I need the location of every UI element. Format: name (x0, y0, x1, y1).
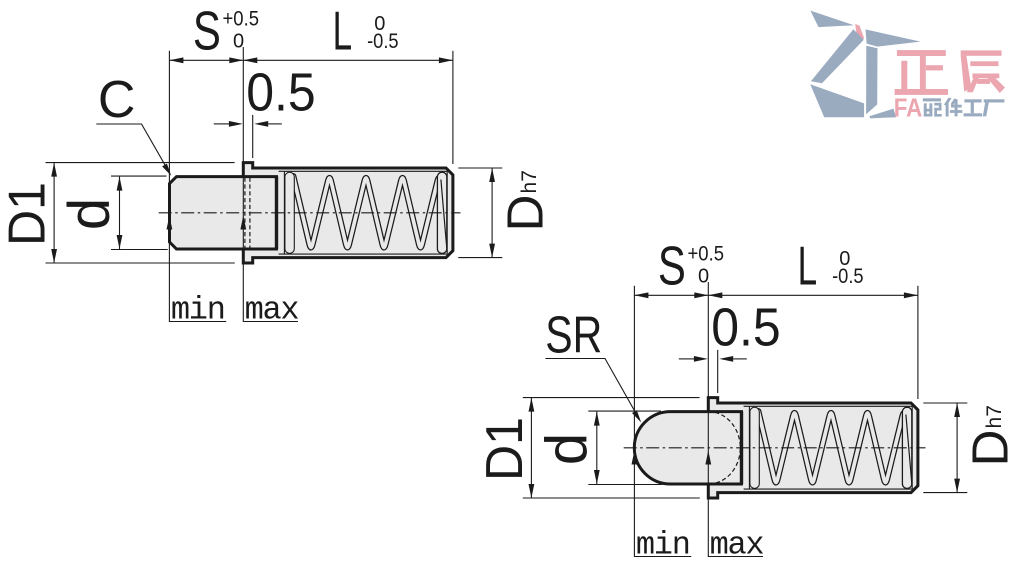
plunger nose A (flat tip with chamfer C) (170, 177, 277, 249)
centerline B (dash-dot axis) (624, 447, 926, 449)
extension line L right B (917, 286, 919, 399)
logo monogram Z diagonal (blue) (811, 29, 864, 83)
spring rear end coil B (902, 407, 911, 488)
extension line max B (707, 282, 709, 557)
min position arrow A (167, 216, 173, 230)
barrel body A (sleeve with front flange) (243, 163, 453, 263)
svg-text:min: min (636, 526, 690, 563)
svg-text:-0.5: -0.5 (832, 265, 864, 288)
logo monogram flag (blue, upper right) (866, 29, 921, 46)
spring wire end behind rear coil B (906, 415, 912, 484)
bore top line A (279, 170, 448, 172)
min underline A (169, 321, 226, 323)
max underline B (708, 556, 763, 558)
svg-text:max: max (710, 526, 764, 563)
svg-text:S: S (658, 234, 686, 296)
logo text Pei (blue strokes) (923, 98, 942, 116)
centerline A (dash-dot axis) (159, 212, 461, 214)
dimension D1 A (53, 163, 55, 263)
extension line min B (633, 286, 635, 557)
dimension line S-L A (169, 59, 453, 61)
bore front face B (748, 406, 750, 489)
svg-text:max: max (245, 291, 299, 328)
dimension line S-L B (634, 294, 918, 296)
svg-text:0.5: 0.5 (711, 297, 781, 357)
extension line L right A (452, 51, 454, 164)
logo monogram bottom-left (blue) (810, 84, 864, 117)
barrel body B (sleeve with front flange) (708, 398, 918, 498)
spring coil A (zigzag wire) (293, 176, 441, 247)
extension line 0.5 A (252, 115, 254, 158)
spring front end coil A (285, 172, 294, 253)
logo char Chen (pink strokes) (961, 50, 1005, 93)
bore front face A (283, 171, 285, 254)
figure: ball-nose spring plunger (bottom right view) (476, 234, 1015, 563)
svg-text:-0.5: -0.5 (367, 30, 399, 53)
svg-text:0: 0 (233, 30, 244, 52)
extension line 0.5 B (717, 350, 719, 393)
dimension d B (596, 412, 598, 484)
svg-text:d: d (534, 433, 599, 465)
max position arrow A (240, 216, 246, 230)
bore bottom line B (744, 488, 913, 490)
svg-text:S: S (193, 0, 221, 61)
svg-text:+0.5: +0.5 (223, 7, 260, 30)
dimension Dh7 B (956, 403, 958, 493)
dimension D1 B (530, 398, 532, 498)
figure: flat-tip spring plunger (top left view) (0, 0, 554, 328)
logo text Gong (blue strokes) (964, 99, 983, 116)
logo text Jian (blue strokes) (944, 98, 962, 117)
leader line C (96, 124, 170, 173)
svg-text:D: D (962, 430, 1015, 467)
spring coil B (zigzag wire) (758, 411, 906, 482)
company logo (top right) (810, 11, 1005, 123)
svg-text:D1: D1 (476, 417, 534, 481)
svg-text:L: L (333, 0, 353, 61)
logo monogram top bar (blue triangle) (810, 11, 854, 28)
nose rear face B (740, 412, 743, 484)
svg-text:min: min (171, 291, 225, 328)
logo monogram pink wedge (855, 24, 864, 41)
spring rear end coil A (437, 172, 446, 253)
hidden bore edge A (dashed, left) (244, 178, 246, 249)
bore top line B (744, 405, 913, 407)
leader line SR (545, 359, 639, 420)
logo monogram foot (blue) (869, 109, 896, 119)
svg-text:0: 0 (698, 265, 709, 287)
bore rear wall B (911, 406, 913, 489)
extension line min A (168, 51, 170, 322)
svg-text:D: D (497, 195, 554, 232)
dimension Dh7 A (491, 168, 493, 258)
max position arrow B (705, 451, 711, 465)
dimension 0.5 flange width B (679, 358, 694, 360)
min position arrow B (632, 451, 638, 465)
dimension 0.5 flange width A (214, 123, 229, 125)
svg-text:C: C (98, 71, 136, 129)
svg-text:0.5: 0.5 (246, 62, 316, 122)
logo monogram vertical stem (blue) (866, 46, 877, 114)
hidden tip arc B (dashed, nose at max) (708, 412, 740, 484)
bore bottom line A (279, 253, 448, 255)
svg-text:SR: SR (545, 307, 602, 365)
bore rear wall A (446, 171, 448, 254)
svg-text:d: d (57, 198, 122, 230)
nose rear face A (275, 177, 278, 249)
hidden bore edge A (dashed, right) (249, 178, 251, 249)
leader arrow C (162, 164, 171, 176)
spring wire end behind rear coil A (441, 180, 447, 249)
svg-text:+0.5: +0.5 (688, 242, 725, 265)
logo char Zheng (pink strokes) (895, 50, 948, 95)
spring front end coil B (750, 407, 759, 488)
logo text Chang (blue strokes) (983, 99, 1005, 116)
min underline B (634, 556, 691, 558)
svg-text:FA: FA (894, 93, 923, 123)
extension line max A (242, 47, 244, 322)
plunger nose B (spherical tip SR) (634, 412, 741, 484)
dimension d A (119, 177, 121, 249)
leader arrow SR (632, 410, 641, 422)
svg-text:D1: D1 (0, 182, 57, 246)
svg-text:h7: h7 (518, 170, 541, 193)
svg-text:L: L (798, 234, 818, 296)
max underline A (243, 321, 298, 323)
svg-text:h7: h7 (983, 405, 1006, 428)
